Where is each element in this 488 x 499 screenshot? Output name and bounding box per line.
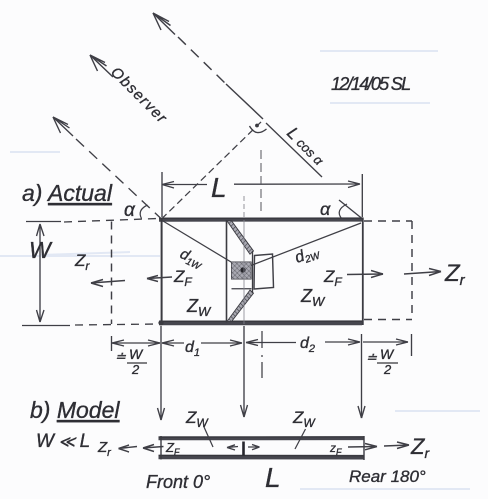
box right edge (362, 218, 364, 326)
observer arrow 1 (long, top) (153, 13, 263, 119)
svg-text:Front 0°: Front 0° (146, 472, 210, 492)
model bar left cap (160, 436, 162, 460)
down arrow center (241, 326, 248, 417)
model bar right cap (363, 436, 365, 460)
svg-text:≐: ≐ (366, 350, 377, 365)
d1W line (163, 221, 241, 268)
svg-text:≐: ≐ (115, 349, 126, 364)
svg-text:12/14/05 SL: 12/14/05 SL (331, 74, 410, 94)
speaker centerline (243, 220, 245, 324)
svg-text:2: 2 (131, 362, 140, 377)
right-angle mark at vertex (250, 126, 267, 133)
outer dashed rect left vertical (111, 222, 113, 325)
outer dashed bottom-right (364, 319, 412, 321)
model driver tick (242, 442, 245, 456)
model bar top edge (159, 436, 365, 440)
svg-text:L: L (265, 462, 281, 493)
outer dashed right vertical (411, 221, 413, 319)
outer dashed top-left (64, 219, 158, 223)
svg-text:L: L (211, 172, 227, 203)
model bar bottom edge (159, 455, 365, 460)
svg-text:2: 2 (383, 362, 392, 377)
outer dashed bottom-left (75, 324, 159, 325)
model left arrows (119, 445, 164, 453)
box bottom edge (159, 320, 362, 325)
centerline above box (260, 150, 262, 214)
down arrow right (358, 334, 365, 418)
svg-text:W: W (380, 346, 395, 362)
center dash-dot below box (261, 331, 263, 378)
speaker throat (252, 251, 254, 293)
speaker cone lower (227, 290, 254, 322)
observer arrow 2 (middle, labelled) (90, 55, 113, 77)
svg-text:W ≪ L: W ≪ L (36, 431, 90, 452)
speaker center dot (240, 267, 245, 272)
model driver arrows (227, 445, 260, 451)
W dimension (22, 222, 70, 326)
speaker cone upper (227, 221, 254, 254)
box top edge (159, 217, 363, 221)
L dimension (162, 172, 362, 217)
svg-text:b) Model: b) Model (30, 397, 120, 423)
observer arrow 3 (lower-left, to box corner) (53, 117, 162, 219)
speaker centerline above box (243, 196, 245, 218)
magnet box (254, 254, 274, 289)
corner dot bottom-left (158, 320, 163, 325)
svg-text:W: W (29, 237, 53, 263)
svg-text:α: α (320, 199, 331, 219)
L cos alpha line (266, 123, 362, 219)
down arrow left (158, 326, 165, 420)
svg-text:α: α (124, 200, 136, 221)
wavefront line (corner to vertex, dashed) (162, 120, 264, 219)
svg-text:Rear 180°: Rear 180° (349, 467, 426, 486)
bottom dimension line (112, 334, 412, 356)
speaker baffle (226, 220, 228, 323)
model right arrows (348, 442, 409, 450)
outer dashed top-right (364, 220, 412, 222)
d2W line (247, 223, 361, 267)
magnet hatch block (232, 262, 252, 279)
W/2 label right (366, 346, 398, 377)
svg-text:W: W (129, 346, 144, 362)
Zr right (404, 269, 441, 276)
W/2 label left (115, 346, 147, 377)
box left edge (161, 218, 163, 326)
svg-text:a) Actual: a) Actual (22, 180, 113, 206)
